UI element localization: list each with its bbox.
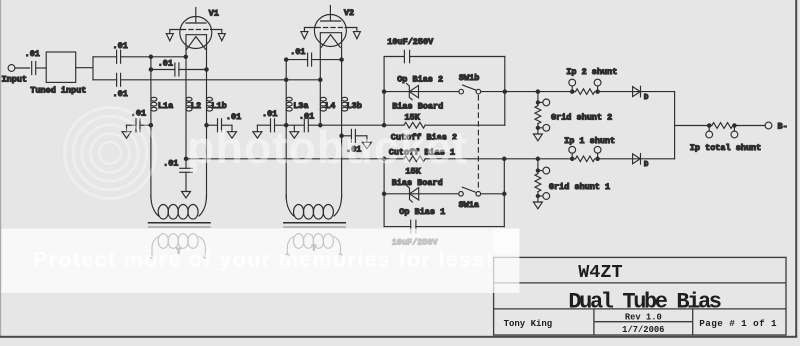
capacitor .01 L1a xyxy=(135,119,137,132)
node dot right xyxy=(596,90,599,93)
svg-text:SW1b: SW1b xyxy=(459,73,479,83)
node dot board2 left diode wire xyxy=(382,90,385,93)
node dot board1 right diode wire xyxy=(503,192,506,195)
resistor Ip total shunt xyxy=(712,123,733,129)
inductor L3b xyxy=(342,97,348,101)
wire V1 grid drop vertical xyxy=(150,57,152,70)
arrow down L2 gnd xyxy=(182,192,191,199)
Ip 2 shunt: node dot left xyxy=(571,90,574,93)
svg-text:Bias Board: Bias Board xyxy=(392,178,443,188)
row separator 1 xyxy=(494,282,786,284)
svg-text:L2: L2 xyxy=(191,101,201,111)
bus vertical xyxy=(674,92,676,159)
grid shunt 1: wire down xyxy=(537,159,539,174)
node dot Ip total left xyxy=(708,124,711,127)
switch linkage dashed xyxy=(477,96,479,191)
wire xyxy=(257,124,270,126)
diode D top xyxy=(633,87,641,97)
arrow down grid shunt 2 gnd xyxy=(533,134,542,141)
TITLEBLOCK xyxy=(494,257,786,335)
wire xyxy=(15,67,30,69)
wire diode to bus xyxy=(641,91,675,93)
capacitor .01 V1 grid xyxy=(174,63,176,76)
svg-text:.01: .01 xyxy=(299,112,314,122)
page border left xyxy=(0,0,1,337)
row separator 2 xyxy=(494,308,786,310)
node dot grid shunt 2 tap xyxy=(536,90,539,93)
test point stub + circle right xyxy=(733,126,735,132)
transformer T2 core xyxy=(284,222,346,224)
node dot xyxy=(536,126,539,129)
test point circle xyxy=(538,127,543,129)
svg-text:1/7/2006: 1/7/2006 xyxy=(622,325,664,335)
tuned input box xyxy=(46,52,75,82)
svg-text:Grid shunt 2: Grid shunt 2 xyxy=(551,113,612,123)
wire xyxy=(355,135,367,137)
tube V2 screen bar xyxy=(321,32,342,34)
wire xyxy=(537,192,539,202)
wire L1a line xyxy=(150,70,152,199)
L1b bypass: node dot xyxy=(205,124,208,127)
node dot T1 sec right xyxy=(204,255,207,258)
L4 bypass: wire xyxy=(286,124,304,126)
inductor L1b xyxy=(207,97,213,101)
page border right xyxy=(795,0,797,337)
svg-text:Input: Input xyxy=(2,75,28,85)
bias board 1 box left edge xyxy=(383,159,385,227)
wire xyxy=(537,124,539,134)
node dot T2 sec left xyxy=(286,254,289,257)
resistor 15K cutoff bias 1 xyxy=(404,156,425,162)
capacitor 10uF/250V top xyxy=(403,50,405,62)
L1a bypass: wire xyxy=(127,124,137,126)
output wire xyxy=(675,125,712,127)
bias board 2 bottom edge with 15K xyxy=(384,124,404,126)
L3a bypass: wire stub xyxy=(256,125,258,132)
test point stub + circle left xyxy=(571,86,573,92)
wire xyxy=(207,124,218,126)
capacitor .01 upper xyxy=(116,50,118,63)
svg-text:Ip 1 shunt: Ip 1 shunt xyxy=(564,136,615,146)
wire to diode xyxy=(598,91,641,93)
svg-text:V2: V2 xyxy=(344,8,354,18)
node dot upper rail end xyxy=(184,55,187,58)
node dot T2 sec right xyxy=(339,254,342,257)
capacitor .01 L3b xyxy=(350,129,352,142)
wire L3b line xyxy=(341,60,343,198)
inductor L1a xyxy=(151,97,157,101)
wire xyxy=(36,67,47,69)
wire xyxy=(185,172,187,191)
tube V1 envelope xyxy=(180,17,212,49)
wire stub xyxy=(126,125,128,132)
tube V2 plate lead xyxy=(329,6,331,22)
node dot xyxy=(536,194,539,197)
capacitor .01 L3a xyxy=(270,119,272,132)
resistor Ip 1 shunt xyxy=(576,156,595,162)
tube V2 cathode V xyxy=(321,35,340,48)
node dot right xyxy=(596,157,599,160)
wire V1 grid cap right xyxy=(179,69,207,71)
wire switch to edge xyxy=(481,91,505,93)
svg-text:Bias Board: Bias Board xyxy=(392,102,443,112)
svg-text:.01: .01 xyxy=(113,41,128,51)
svg-text:D: D xyxy=(644,161,649,169)
bias board 2 box right edge xyxy=(504,57,506,126)
wire upper rail to V1 left leg xyxy=(121,56,186,58)
arrow down L1b gnd xyxy=(228,132,237,139)
resistor grid shunt 1 xyxy=(535,174,541,192)
test point circle xyxy=(538,170,543,172)
svg-text:SW1a: SW1a xyxy=(459,200,479,210)
node dot V1 right leg xyxy=(205,68,208,71)
bias board 1 top edge with 15K xyxy=(384,158,404,160)
wire upper rail xyxy=(93,56,117,58)
transformer T2 primary winding xyxy=(294,205,304,220)
wire stub xyxy=(293,125,295,132)
transformer T1 primary lead right xyxy=(199,195,207,216)
wire xyxy=(140,124,151,126)
arrow down V1 right xyxy=(218,34,225,41)
node dot grid shunt 1 tap xyxy=(536,157,539,160)
wire to diode xyxy=(598,158,641,160)
test point stub + circle right xyxy=(597,86,599,92)
bias board 1 bottom edge with cap gap xyxy=(384,226,411,228)
wire to zener xyxy=(384,91,418,93)
L2 ground leg: node dot xyxy=(184,157,187,160)
transformer T1 secondary winding xyxy=(158,234,168,249)
tube V1 right leg down xyxy=(206,35,208,70)
node dot V2 right leg cap xyxy=(340,58,343,61)
node dot lower rail V2 grid drop xyxy=(285,78,288,81)
test point stub + circle left xyxy=(571,153,573,159)
wire to B- terminal xyxy=(734,125,765,127)
inductor L4 xyxy=(320,97,326,101)
svg-text:Ip total shunt: Ip total shunt xyxy=(690,143,761,153)
column divider 2 xyxy=(692,309,694,335)
node dot board2 right diode wire xyxy=(503,90,506,93)
bias board 2 top edge with cap gap xyxy=(384,56,404,58)
wire stub xyxy=(231,125,233,132)
grid shunt 2: wire down xyxy=(537,92,539,106)
svg-text:Grid shunt 1: Grid shunt 1 xyxy=(549,182,610,192)
svg-text:Page # 1 of 1: Page # 1 of 1 xyxy=(699,318,777,329)
arrow down grid shunt 1 gnd xyxy=(533,202,542,209)
tube V1 cathode V xyxy=(187,37,206,50)
wire to zener xyxy=(384,193,419,195)
node split xyxy=(92,57,94,80)
svg-text:.01: .01 xyxy=(113,89,128,99)
rev cell divider xyxy=(594,321,693,323)
transformer T2 secondary winding xyxy=(294,234,304,249)
svg-text:.01: .01 xyxy=(226,112,241,122)
svg-text:D: D xyxy=(644,94,649,102)
arrow down V2 right xyxy=(353,32,360,39)
capacitor .01 V2 grid xyxy=(307,53,309,66)
node dot board1 left diode wire xyxy=(382,192,385,195)
node dot T1 sec left xyxy=(150,255,153,258)
wire V2 grid drop vertical xyxy=(285,60,287,126)
arrow down L1a gnd xyxy=(122,132,131,139)
tube V1 plate bar xyxy=(186,22,206,24)
node dot xyxy=(149,68,152,71)
svg-text:Protect more of your memories: Protect more of your memories for less! xyxy=(33,248,494,272)
title block outer box xyxy=(494,257,786,335)
test point circle xyxy=(538,195,543,197)
capacitor .01 L1b xyxy=(217,119,219,132)
column divider 1 xyxy=(593,309,595,335)
inductor L3a xyxy=(286,97,292,101)
wire lower rail xyxy=(93,79,117,81)
transformer T2 primary lead left xyxy=(286,195,294,216)
svg-text:Dual Tube Bias: Dual Tube Bias xyxy=(568,289,720,314)
node dot L3a xyxy=(285,124,288,127)
resistor grid shunt 2 xyxy=(535,106,541,124)
transformer T2 secondary lead right xyxy=(334,237,341,256)
node dot board2 bottom-left xyxy=(382,124,385,127)
tube V1 screen bar xyxy=(186,34,207,36)
svg-text:Rev 1.0: Rev 1.0 xyxy=(625,312,662,322)
svg-text:Op Bias 1: Op Bias 1 xyxy=(399,207,445,217)
wire xyxy=(76,67,93,69)
svg-text:V1: V1 xyxy=(209,9,219,19)
capacitor .01 L4 xyxy=(303,119,305,132)
tube V1 grid side wire right xyxy=(211,30,222,34)
wire L2 line xyxy=(185,57,187,169)
arrow down V2 left xyxy=(301,32,308,39)
wire to L4 and board2 corner xyxy=(308,124,384,126)
inductor L2 xyxy=(186,97,192,101)
node dot L4 xyxy=(319,124,322,127)
tube V2 plate bar xyxy=(321,20,341,22)
diode D bottom xyxy=(633,154,641,164)
L3b bypass: node dot xyxy=(340,134,343,137)
node dot lower rail end xyxy=(319,78,322,81)
transformer T1 secondary lead left xyxy=(152,237,159,257)
svg-text:15K: 15K xyxy=(405,113,421,123)
input terminal J1 xyxy=(8,65,15,72)
svg-text:.01: .01 xyxy=(25,49,40,59)
node dot xyxy=(536,169,539,172)
wire xyxy=(312,59,342,61)
resistor Ip 2 shunt xyxy=(576,89,595,95)
svg-text:L1a: L1a xyxy=(158,101,173,111)
svg-text:B-: B- xyxy=(778,122,788,132)
tube V2 grid side wire right xyxy=(345,28,357,32)
svg-text:.01: .01 xyxy=(158,59,173,69)
wire V2 grid cap xyxy=(286,59,307,61)
tube V1 grid dashed xyxy=(182,29,211,31)
node dot board1 top-left xyxy=(382,157,385,160)
svg-text:L1b: L1b xyxy=(211,101,226,111)
wire zener to switch xyxy=(419,193,459,195)
bias board 2 box left edge xyxy=(383,57,385,126)
watermark logo rings xyxy=(65,108,156,199)
node dot Ip total right xyxy=(733,124,736,127)
svg-text:photobucket: photobucket xyxy=(187,122,468,173)
wire lower run board1 to Ip1 shunt xyxy=(504,158,575,160)
watermark logo box xyxy=(493,229,520,254)
resistor 15K cutoff bias 2 xyxy=(404,122,425,128)
wire L3a line lower xyxy=(285,125,287,198)
transformer T2 secondary lead left xyxy=(287,237,294,256)
node dot upper rail drop xyxy=(149,55,152,58)
watermark band xyxy=(0,229,519,294)
transformer T1 secondary lead right xyxy=(199,237,206,257)
wire cutoff bias 1 run xyxy=(186,158,384,160)
tube V1 left leg down xyxy=(185,35,187,57)
test point stub + circle right xyxy=(597,153,599,159)
svg-text:Tuned input: Tuned input xyxy=(30,85,86,95)
svg-text:.01: .01 xyxy=(163,159,178,169)
transformer T1 primary lead left xyxy=(151,195,159,216)
wire xyxy=(222,124,233,126)
switch SW1b xyxy=(459,89,464,94)
tube V1 grid side wire left xyxy=(170,30,182,34)
wire xyxy=(342,135,352,137)
transformer T2 primary lead right xyxy=(334,195,342,216)
wire lower rail to V2 left leg xyxy=(121,79,321,81)
svg-text:L3a: L3a xyxy=(293,101,308,111)
capacitor .01 input xyxy=(31,62,33,75)
tube V2 grid dashed xyxy=(316,27,345,29)
node dot L1a xyxy=(149,124,152,127)
svg-text:Tony King: Tony King xyxy=(504,319,553,329)
arrow down L3a gnd xyxy=(253,132,262,139)
transformer T1 primary winding xyxy=(158,205,168,220)
terminal B- xyxy=(765,122,772,129)
svg-text:L3b: L3b xyxy=(347,101,362,111)
zener diode op bias 1 xyxy=(407,186,413,202)
capacitor .01 L2 xyxy=(180,167,193,169)
wire xyxy=(275,124,287,126)
svg-text:W4ZT: W4ZT xyxy=(578,262,622,283)
bias board 1 box right edge xyxy=(503,159,505,227)
svg-text:10uF/250V: 10uF/250V xyxy=(387,37,434,47)
transformer T1 core xyxy=(149,222,211,224)
tube V2 envelope xyxy=(314,15,346,47)
arrow down L3b gnd xyxy=(362,142,371,149)
switch SW1a xyxy=(459,192,464,197)
wire L1b line xyxy=(206,70,208,199)
tube V2 grid side wire left xyxy=(304,28,316,32)
svg-text:.01: .01 xyxy=(262,109,277,119)
test point stub + circle left xyxy=(708,126,710,132)
capacitor .01 lower xyxy=(116,73,118,86)
page border bottom xyxy=(0,336,797,338)
svg-text:.01: .01 xyxy=(290,47,305,57)
zener diode op bias 2 xyxy=(407,83,413,99)
wire top run board2 to Ip2 shunt xyxy=(505,91,576,93)
wire V1 grid cap left xyxy=(151,69,175,71)
wire switch to edge xyxy=(481,193,505,195)
node dot xyxy=(536,101,539,104)
test point circle xyxy=(538,101,543,103)
node dot V2 grid drop top xyxy=(285,58,288,61)
arrow down L4 gnd xyxy=(290,132,299,139)
wire stub xyxy=(366,136,368,143)
svg-text:L4: L4 xyxy=(325,101,335,111)
tube V1 plate lead xyxy=(195,8,197,24)
tube V2 left leg down xyxy=(319,33,321,126)
arrow down V1 left xyxy=(166,34,173,41)
Ip 1 shunt: node dot left xyxy=(571,157,574,160)
wire diode to bus xyxy=(641,158,675,160)
svg-text:Op Bias 2: Op Bias 2 xyxy=(397,75,443,85)
tube V2 right leg down xyxy=(341,33,343,60)
svg-text:Ip 2 shunt: Ip 2 shunt xyxy=(566,67,617,77)
capacitor 10uF/250V bottom xyxy=(410,220,412,233)
node dot board1 top-right xyxy=(503,157,506,160)
wire zener to switch xyxy=(419,91,459,93)
